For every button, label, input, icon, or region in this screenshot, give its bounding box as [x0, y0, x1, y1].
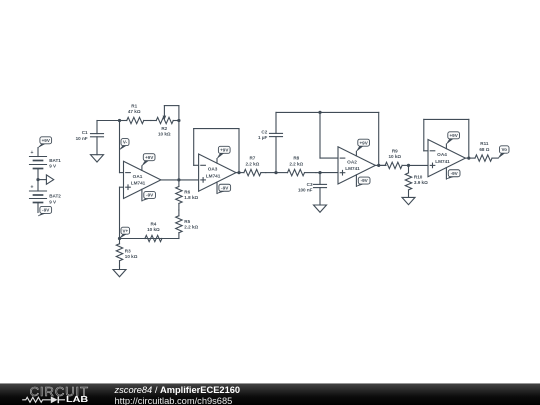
svg-text:LM741: LM741 — [435, 159, 450, 164]
svg-text:+9V: +9V — [42, 138, 51, 143]
svg-text:R4: R4 — [150, 222, 156, 227]
svg-text:OA4: OA4 — [437, 152, 447, 157]
svg-text:R5: R5 — [184, 219, 190, 224]
svg-text:68 Ω: 68 Ω — [479, 147, 489, 152]
svg-text:-9V: -9V — [221, 185, 229, 190]
svg-text:+9V: +9V — [220, 147, 229, 152]
svg-text:2.2 kΩ: 2.2 kΩ — [245, 161, 259, 166]
svg-text:BAT1: BAT1 — [49, 158, 61, 163]
svg-text:100 nF: 100 nF — [298, 188, 313, 193]
svg-text:R3: R3 — [125, 248, 131, 253]
svg-text:OA2: OA2 — [347, 159, 357, 164]
svg-text:BAT2: BAT2 — [49, 194, 61, 199]
svg-text:+: + — [30, 184, 33, 190]
svg-text:V+: V+ — [122, 228, 128, 233]
svg-text:10 kΩ: 10 kΩ — [388, 154, 401, 159]
svg-text:C3: C3 — [307, 182, 313, 187]
svg-text:-9V: -9V — [361, 178, 369, 183]
svg-text:47 kΩ: 47 kΩ — [128, 109, 141, 114]
svg-text:R2: R2 — [161, 126, 167, 131]
svg-text:2.2 kΩ: 2.2 kΩ — [184, 225, 198, 230]
svg-text:+9V: +9V — [449, 133, 458, 138]
svg-text:C1: C1 — [82, 130, 88, 135]
svg-text:10 nF: 10 nF — [76, 136, 88, 141]
svg-text:+9V: +9V — [359, 140, 368, 145]
svg-text:OA1: OA1 — [133, 174, 143, 179]
svg-text:10 kΩ: 10 kΩ — [147, 227, 160, 232]
svg-text:R7: R7 — [249, 156, 255, 161]
svg-text:+9V: +9V — [145, 155, 154, 160]
svg-text:Vo: Vo — [502, 147, 508, 152]
svg-text:R10: R10 — [414, 174, 423, 179]
svg-text:R9: R9 — [392, 149, 398, 154]
svg-text:OA3: OA3 — [208, 167, 218, 172]
svg-text:R11: R11 — [480, 141, 489, 146]
svg-text:1 µF: 1 µF — [258, 135, 267, 140]
svg-text:LM741: LM741 — [131, 181, 146, 186]
svg-text:9 V: 9 V — [49, 199, 57, 204]
svg-text:C2: C2 — [261, 129, 267, 134]
svg-text:R8: R8 — [293, 156, 299, 161]
svg-text:LM741: LM741 — [206, 173, 221, 178]
svg-text:+: + — [30, 150, 33, 156]
svg-text:LM741: LM741 — [345, 166, 360, 171]
svg-text:9 V: 9 V — [49, 164, 57, 169]
svg-text:-9V: -9V — [146, 193, 154, 198]
svg-text:10 kΩ: 10 kΩ — [158, 131, 171, 136]
svg-text:V-: V- — [123, 140, 128, 145]
svg-text:2.2 kΩ: 2.2 kΩ — [289, 161, 303, 166]
svg-text:1.8 kΩ: 1.8 kΩ — [184, 195, 198, 200]
svg-text:R1: R1 — [131, 104, 137, 109]
svg-text:R6: R6 — [184, 190, 190, 195]
svg-text:-9V: -9V — [451, 171, 459, 176]
svg-text:-9V: -9V — [42, 208, 50, 213]
svg-text:3.9 kΩ: 3.9 kΩ — [414, 180, 428, 185]
svg-text:10 kΩ: 10 kΩ — [125, 254, 138, 259]
